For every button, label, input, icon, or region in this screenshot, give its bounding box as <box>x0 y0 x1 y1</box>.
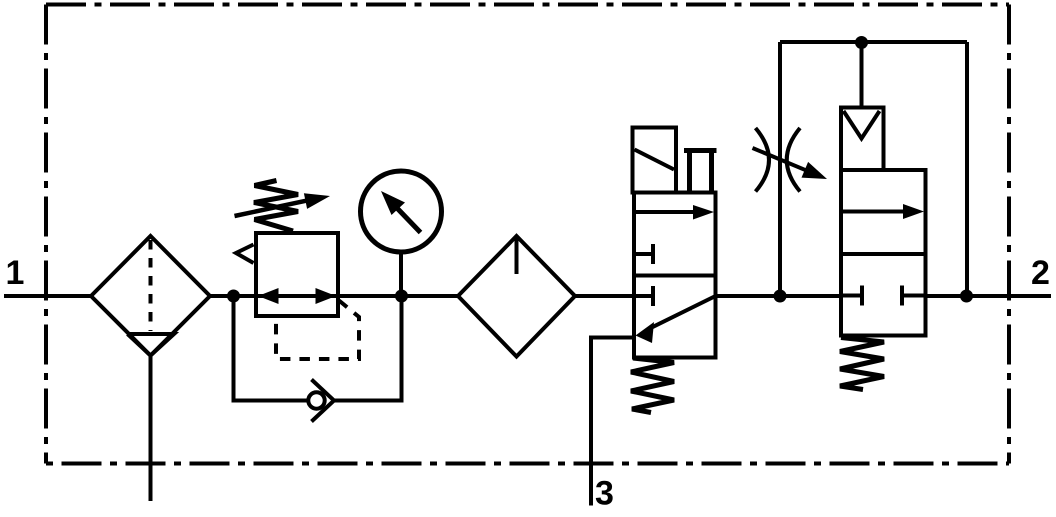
svg-text:2: 2 <box>1031 254 1050 292</box>
svg-text:3: 3 <box>595 475 614 513</box>
svg-text:1: 1 <box>6 254 25 292</box>
